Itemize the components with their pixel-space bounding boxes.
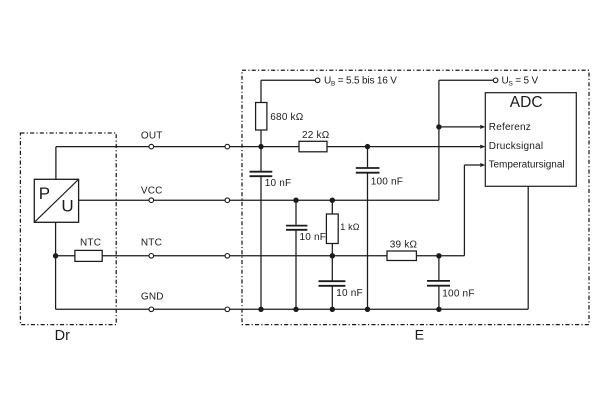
- svg-text:22 kΩ: 22 kΩ: [302, 130, 330, 141]
- svg-text:ADC: ADC: [510, 94, 543, 111]
- svg-text:Drucksignal: Drucksignal: [489, 141, 543, 152]
- svg-text:VCC: VCC: [141, 185, 163, 196]
- svg-text:10 nF: 10 nF: [336, 288, 363, 299]
- svg-text:GND: GND: [141, 292, 164, 303]
- svg-text:10 nF: 10 nF: [300, 232, 327, 243]
- svg-text:Dr: Dr: [55, 328, 70, 344]
- svg-text:OUT: OUT: [141, 130, 163, 141]
- svg-text:US = 5 V: US = 5 V: [502, 75, 539, 87]
- svg-text:NTC: NTC: [80, 238, 101, 249]
- svg-text:1 kΩ: 1 kΩ: [340, 222, 360, 232]
- svg-text:U: U: [61, 197, 73, 216]
- svg-text:10 nF: 10 nF: [265, 178, 292, 189]
- svg-text:NTC: NTC: [141, 238, 162, 249]
- svg-text:P: P: [39, 184, 50, 203]
- svg-text:39 kΩ: 39 kΩ: [390, 239, 418, 250]
- svg-text:680 kΩ: 680 kΩ: [270, 112, 303, 123]
- svg-text:Referenz: Referenz: [489, 122, 531, 133]
- svg-text:UB = 5.5 bis 16 V: UB = 5.5 bis 16 V: [324, 75, 397, 87]
- svg-text:Temperatursignal: Temperatursignal: [489, 160, 565, 171]
- svg-text:E: E: [415, 327, 424, 343]
- svg-text:100 nF: 100 nF: [371, 176, 403, 187]
- svg-text:100 nF: 100 nF: [442, 288, 474, 299]
